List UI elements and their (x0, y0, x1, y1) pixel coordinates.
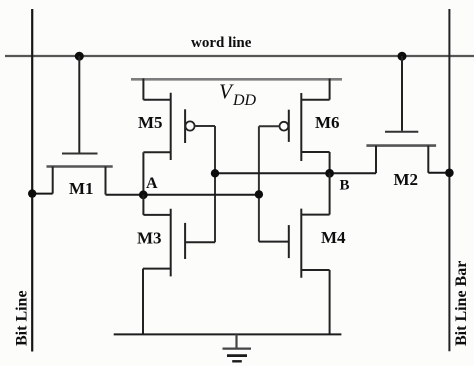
bit line bar (right) (448, 9, 450, 351)
node A (139, 190, 148, 199)
svg-text:Bit Line Bar: Bit Line Bar (453, 261, 470, 346)
transistor M2 (NMOS access) (366, 56, 436, 173)
net: VDD rail (131, 78, 342, 81)
wire: node B horizontal (M5 gate vertical to M2) (215, 172, 376, 174)
svg-text:M4: M4 (321, 228, 346, 247)
node B (325, 169, 334, 178)
wire: node A horizontal (M1 drain to M6 gate vertical) (106, 194, 259, 196)
svg-text:M6: M6 (315, 113, 340, 132)
svg-text:B: B (340, 178, 350, 194)
junction: M5 gate / node B wire (211, 169, 219, 177)
svg-text:M3: M3 (137, 229, 162, 248)
svg-text:M1: M1 (69, 179, 94, 198)
ground rail (114, 333, 342, 335)
transistor M6 (PMOS) (280, 79, 330, 174)
svg-text:A: A (146, 175, 158, 192)
wire: M2 drain to bit line bar (428, 172, 449, 174)
svg-text:word line: word line (191, 35, 252, 51)
transistor M5 (PMOS) (143, 79, 194, 195)
junction: bit line / M1 source (28, 189, 36, 197)
label VDD (219, 80, 257, 109)
svg-text:V: V (219, 80, 234, 104)
svg-text:DD: DD (232, 92, 257, 109)
ground (223, 334, 252, 361)
transistor M3 (NMOS driver) (143, 195, 215, 335)
svg-text:Bit Line: Bit Line (14, 290, 31, 346)
bit line (left) (31, 9, 33, 352)
junction: word line / M2 gate (398, 52, 407, 61)
svg-text:M2: M2 (394, 170, 419, 189)
transistor M4 (NMOS driver) (259, 173, 330, 334)
junction: word line / M1 gate (75, 52, 84, 61)
wire: M5 gate to cross-couple (node B side) (195, 126, 215, 242)
net: word line (5, 55, 474, 57)
junction: M6 gate / node A wire (255, 190, 263, 198)
wire: M1 source to bit line (32, 193, 53, 195)
svg-text:M5: M5 (138, 113, 163, 132)
junction: bit line bar / M2 drain (445, 169, 454, 178)
wire: M6 gate to cross-couple (node A side) (259, 126, 280, 241)
transistor M1 (NMOS access) (47, 56, 113, 195)
